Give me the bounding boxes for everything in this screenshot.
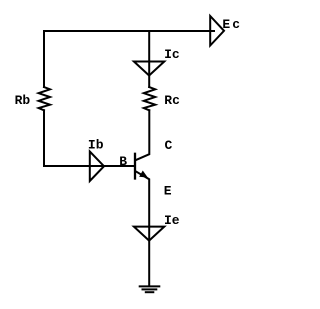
label Ic — [164, 47, 180, 62]
svg-text:B: B — [119, 154, 127, 169]
transistor Q1 base bar — [134, 154, 136, 179]
current arrow Ie — [134, 227, 164, 241]
svg-text:Ib: Ib — [88, 138, 104, 153]
svg-text:Rc: Rc — [164, 93, 180, 108]
wire top rail from left corner to Ec source — [44, 30, 214, 32]
wire base horizontal (corner through Ib arrow to base bar) — [44, 165, 134, 167]
label Ec — [222, 17, 240, 32]
ground — [140, 286, 160, 292]
current arrow Ib — [90, 152, 104, 182]
node label C — [165, 138, 173, 153]
wire left branch lower (Rb down to base corner) — [43, 110, 45, 166]
wire emitter lead (through Ie arrow down to ground) — [148, 227, 150, 286]
label Ie — [164, 213, 180, 228]
svg-text:C: C — [165, 138, 173, 153]
wire left branch upper (corner down to Rb) — [43, 31, 45, 87]
resistor Rb — [39, 87, 50, 110]
label Ib — [88, 138, 104, 153]
transistor Q1 emitter with arrow — [136, 171, 150, 226]
node label E — [164, 184, 172, 199]
current arrow Ic — [134, 62, 164, 76]
svg-text:Rb: Rb — [15, 93, 31, 108]
label Rc — [164, 93, 180, 108]
wire collector lead (Rc down to transistor collector) — [136, 110, 150, 160]
node label B — [119, 154, 127, 169]
source Ec (open triangle) — [210, 16, 224, 46]
wire collector branch (top rail down through Ic arrow to Rc) — [148, 31, 150, 87]
svg-text:Ie: Ie — [164, 213, 180, 228]
svg-text:Ec: Ec — [222, 17, 240, 32]
label Rb — [15, 93, 31, 108]
svg-text:Ic: Ic — [164, 47, 180, 62]
resistor Rc — [144, 87, 155, 110]
svg-text:E: E — [164, 184, 172, 199]
